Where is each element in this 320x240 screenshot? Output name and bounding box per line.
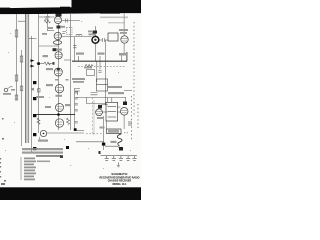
svg-text:MODEL 10-1: MODEL 10-1: [112, 183, 127, 186]
